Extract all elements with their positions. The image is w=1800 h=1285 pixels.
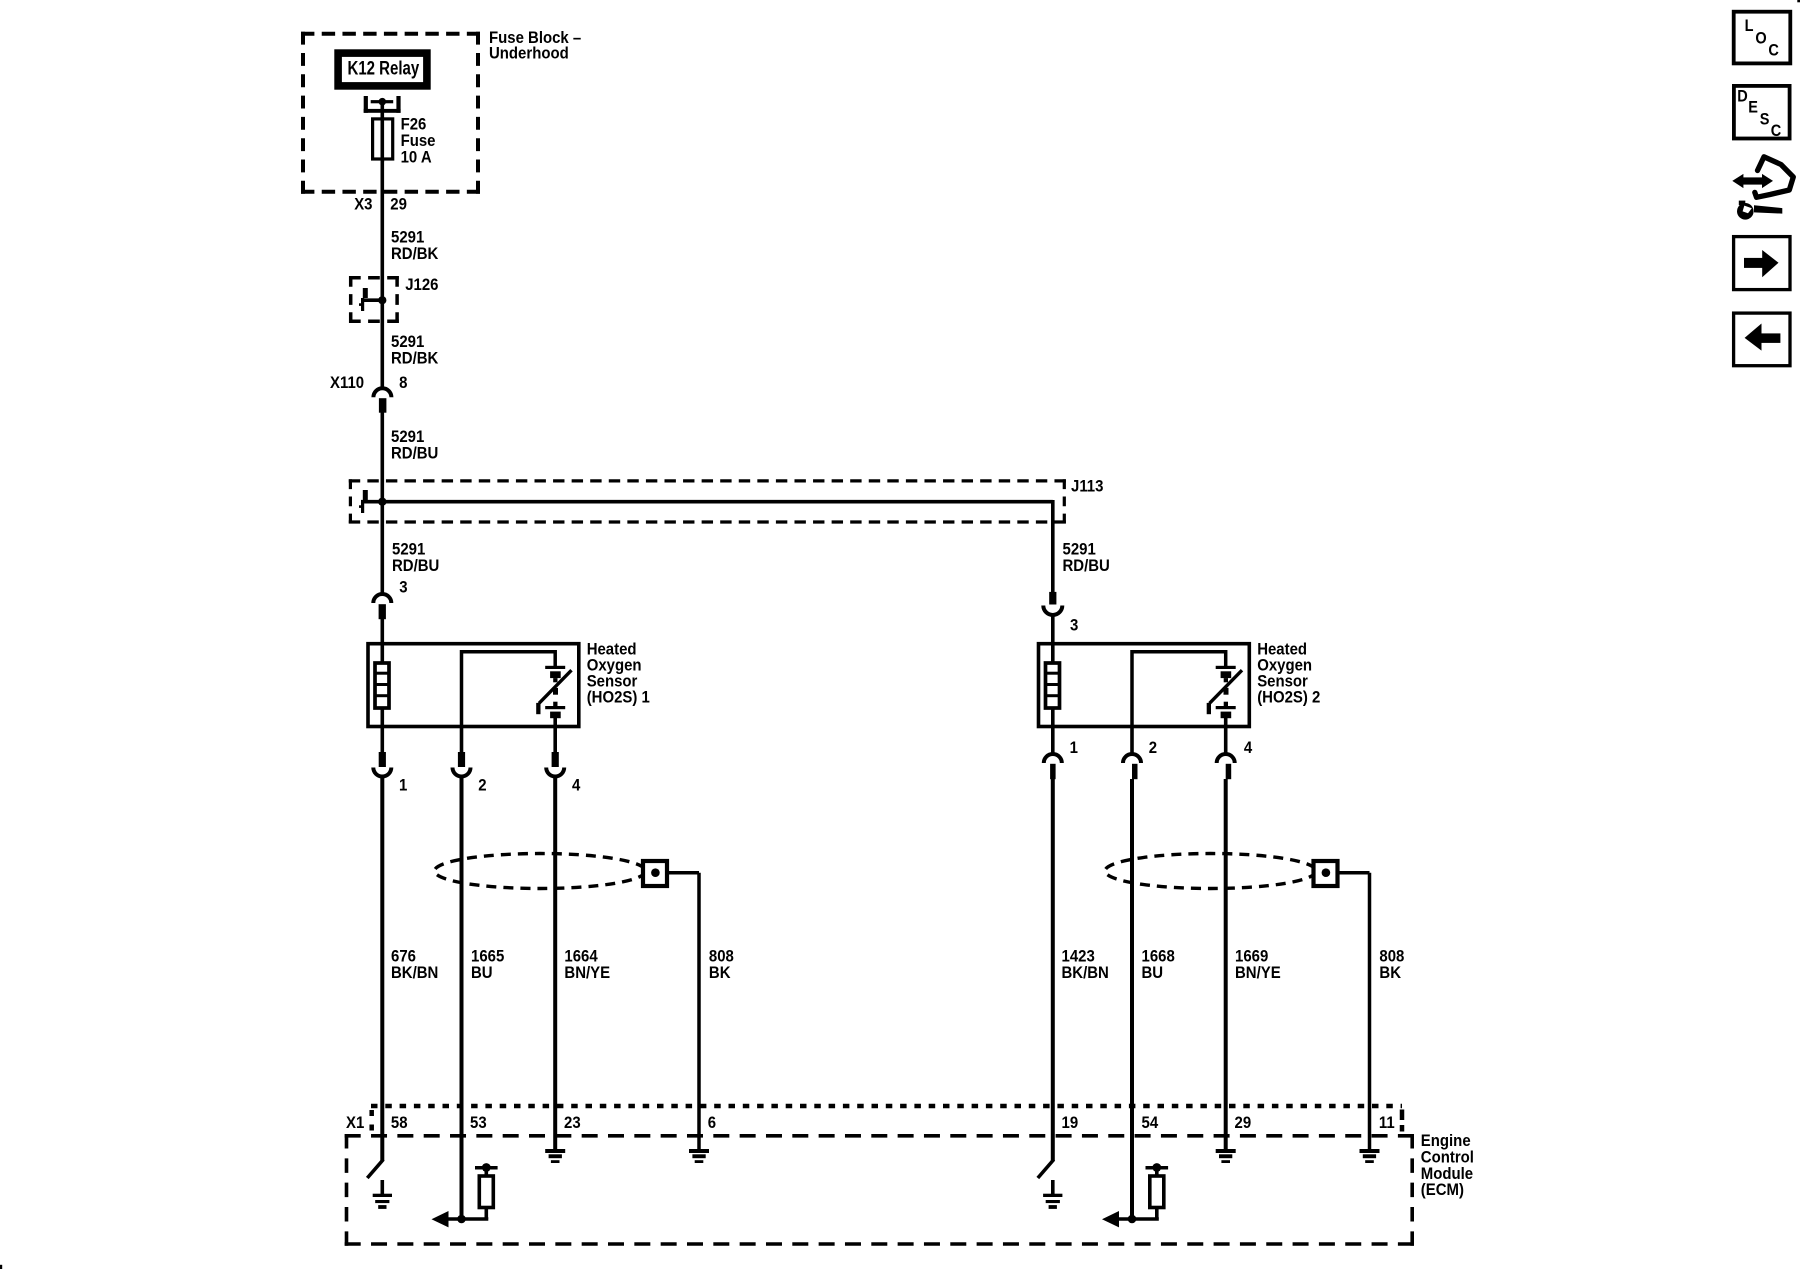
pin connector 2 left <box>453 752 487 795</box>
wire fuse to splice J126, 5291 RD/BK <box>380 161 384 303</box>
fuse F26 10A <box>373 116 436 167</box>
svg-text:53: 53 <box>470 1114 487 1132</box>
ground ECM pin 29 <box>1216 1149 1236 1163</box>
svg-text:Engine: Engine <box>1421 1132 1471 1150</box>
connector X3 pin 29 labels <box>354 196 407 214</box>
HO2S 1 box <box>368 644 579 727</box>
svg-text:1668: 1668 <box>1142 947 1175 965</box>
wire J113 branch horizontal <box>382 500 1053 504</box>
sensor cell loop wire HO2S 2 <box>1132 652 1226 727</box>
wire 1668 BU pin2 to ECM 54 <box>1130 779 1134 1219</box>
sense resistor ECM pin 53 <box>475 1163 498 1219</box>
wire J113 to left connector 3, 5291 RD/BU <box>380 500 384 593</box>
wire HO2S2 to pin 4 connector <box>1224 727 1228 753</box>
sensor cell symbol HO2S 2 <box>1207 666 1242 727</box>
wire connector3 to HO2S1 <box>380 619 384 646</box>
wire label 1664 BN/YE <box>564 947 610 982</box>
wire label 676 BK/BN <box>391 947 438 982</box>
wire label 1665 BU <box>471 947 504 982</box>
svg-text:(HO2S) 1: (HO2S) 1 <box>587 689 650 707</box>
wire X110 to J113, 5291 RD/BU <box>380 413 384 504</box>
wire HO2S1 to pin 1 connector <box>380 727 384 754</box>
svg-text:5291: 5291 <box>1063 541 1096 559</box>
svg-text:BK/BN: BK/BN <box>1062 964 1109 982</box>
wire 808 BK shield drain left <box>667 873 699 1151</box>
svg-text:BN/YE: BN/YE <box>564 964 610 982</box>
svg-text:3: 3 <box>1070 617 1078 635</box>
svg-text:54: 54 <box>1142 1114 1159 1132</box>
svg-text:BU: BU <box>1142 964 1164 982</box>
svg-text:C: C <box>1771 122 1781 140</box>
pin connector 2 right <box>1123 739 1157 779</box>
svg-text:K12 Relay: K12 Relay <box>348 58 420 79</box>
svg-text:BK: BK <box>1379 964 1401 982</box>
svg-text:J126: J126 <box>405 276 438 294</box>
svg-text:19: 19 <box>1062 1114 1079 1132</box>
ground ECM pin 6 <box>689 1149 709 1163</box>
svg-text:1664: 1664 <box>564 947 597 965</box>
svg-text:BU: BU <box>471 964 493 982</box>
svg-text:RD/BK: RD/BK <box>391 245 439 263</box>
signal arrow ECM pin 53 <box>432 1211 489 1227</box>
pin connector 4 right <box>1217 739 1253 779</box>
svg-text:X110: X110 <box>330 374 364 392</box>
svg-text:808: 808 <box>1379 947 1404 965</box>
svg-text:Underhood: Underhood <box>489 45 569 63</box>
svg-text:3: 3 <box>399 579 407 597</box>
svg-text:23: 23 <box>564 1114 581 1132</box>
junction node ECM pin 54 <box>1128 1215 1137 1224</box>
wire J113 branch down right, 5291 RD/BU <box>1051 500 1055 592</box>
svg-text:58: 58 <box>391 1114 408 1132</box>
svg-text:10 A: 10 A <box>401 149 432 167</box>
svg-text:29: 29 <box>1235 1114 1252 1132</box>
wire label 1423 BK/BN <box>1062 947 1109 982</box>
svg-text:676: 676 <box>391 947 416 965</box>
ground ECM pin 11 <box>1360 1149 1380 1163</box>
label Heated Oxygen Sensor (HO2S) 2 <box>1257 641 1320 707</box>
pin connector 1 left <box>373 752 407 795</box>
svg-text:X3: X3 <box>354 196 372 214</box>
wire J126 to X110, 5291 RD/BK <box>380 300 384 388</box>
wire label 1668 BU <box>1142 947 1175 982</box>
label Fuse Block - Underhood <box>489 29 581 62</box>
shield terminal box right <box>1314 861 1338 886</box>
connector X110 pin 8 <box>330 374 408 412</box>
ground chassis ECM pin 19 <box>1043 1180 1062 1209</box>
wire HO2S2 to pin 1 connector <box>1051 727 1055 753</box>
label Heated Oxygen Sensor (HO2S) 1 <box>587 641 650 707</box>
wire label 808 BK right <box>1379 947 1404 982</box>
svg-text:X1: X1 <box>346 1114 364 1132</box>
svg-text:6: 6 <box>708 1114 716 1132</box>
switch inside ECM pin 19 <box>1038 1160 1054 1179</box>
svg-text:5291: 5291 <box>392 541 425 559</box>
ground ECM pin 23 <box>545 1149 565 1163</box>
switch inside ECM pin 58 <box>367 1160 383 1179</box>
svg-text:RD/BU: RD/BU <box>1063 557 1110 575</box>
svg-text:4: 4 <box>1244 739 1252 757</box>
wire 808 BK shield drain right <box>1338 873 1370 1151</box>
svg-text:(ECM): (ECM) <box>1421 1181 1464 1199</box>
svg-text:1423: 1423 <box>1062 947 1095 965</box>
sensor cell symbol HO2S 1 <box>536 666 571 727</box>
icon LOC button <box>1734 12 1791 64</box>
svg-text:11: 11 <box>1379 1114 1395 1132</box>
svg-text:5291: 5291 <box>391 229 424 247</box>
svg-text:(HO2S) 2: (HO2S) 2 <box>1257 689 1320 707</box>
wire HO2S1 to pin 2 connector <box>460 727 464 754</box>
wire label 5291 RD/BK <box>391 229 439 264</box>
splice J113 clamp symbol <box>359 490 381 513</box>
wire 1423 BK/BN pin1 to ECM 19 <box>1051 779 1055 1161</box>
wire HO2S2 to pin 2 connector <box>1130 727 1134 753</box>
fuse block underhood dashed box <box>301 32 480 194</box>
svg-text:E: E <box>1748 99 1758 117</box>
heater element HO2S 1 <box>375 645 389 727</box>
shield terminal box left <box>643 861 667 886</box>
page mark bottom left <box>0 1265 2 1269</box>
label Engine Control Module (ECM) <box>1421 1132 1474 1199</box>
wire HO2S1 to pin 4 connector <box>553 727 557 754</box>
svg-text:S: S <box>1760 111 1770 129</box>
relay contact terminal bracket <box>364 96 401 113</box>
wire relay to fuse <box>380 102 384 119</box>
heater element HO2S 2 <box>1046 645 1060 727</box>
wire 676 BK/BN pin1 to ECM 58 <box>380 777 384 1160</box>
splice J126 <box>349 276 439 323</box>
svg-text:F26: F26 <box>401 116 427 134</box>
wire 1665 BU pin2 to ECM 53 <box>460 777 464 1219</box>
shield ellipse right <box>1105 854 1316 889</box>
svg-text:BK: BK <box>709 964 731 982</box>
page corner mark top right <box>1797 0 1800 2</box>
svg-text:5291: 5291 <box>391 428 424 446</box>
connector pin 3 right <box>1043 592 1078 635</box>
wire label 1669 BN/YE <box>1235 947 1281 982</box>
junction node ECM pin 53 <box>457 1215 466 1224</box>
relay K12 box <box>338 53 427 86</box>
wire label 808 BK left <box>709 947 734 982</box>
junction node J113 <box>378 498 386 506</box>
svg-text:1: 1 <box>399 777 407 795</box>
signal arrow ECM pin 54 <box>1102 1211 1159 1227</box>
HO2S 2 box <box>1039 644 1250 727</box>
svg-text:2: 2 <box>478 777 486 795</box>
wire 1669 BN/YE pin4 to ECM 29 ground <box>1224 779 1228 1151</box>
svg-text:1665: 1665 <box>471 947 504 965</box>
svg-text:4: 4 <box>572 777 580 795</box>
svg-text:RD/BU: RD/BU <box>392 557 439 575</box>
svg-text:J113: J113 <box>1071 478 1104 496</box>
icon diagnostic tools <box>1732 157 1793 220</box>
wire label 5291 RD/BU right <box>1063 541 1110 575</box>
pin connector 1 right <box>1044 739 1078 779</box>
svg-text:C: C <box>1768 42 1778 60</box>
svg-text:BN/YE: BN/YE <box>1235 964 1281 982</box>
ECM connector X1 dotted line <box>371 1106 1402 1132</box>
wire connector3 to HO2S2 <box>1051 617 1055 646</box>
svg-text:BK/BN: BK/BN <box>391 964 438 982</box>
shield ellipse left <box>435 854 646 889</box>
sensor cell loop wire HO2S 1 <box>462 652 556 727</box>
pin connector 4 left <box>546 752 580 795</box>
svg-text:808: 808 <box>709 947 734 965</box>
svg-text:1669: 1669 <box>1235 947 1268 965</box>
svg-text:5291: 5291 <box>391 333 424 351</box>
icon back arrow button <box>1734 313 1790 366</box>
wire label 5291 RD/BK <box>391 333 439 367</box>
wire 1664 BN/YE pin4 to ECM 23 ground <box>553 777 557 1151</box>
sense resistor ECM pin 54 <box>1146 1163 1169 1219</box>
ground chassis ECM pin 58 <box>373 1180 392 1209</box>
svg-text:RD/BU: RD/BU <box>391 444 438 462</box>
svg-text:2: 2 <box>1149 739 1157 757</box>
svg-text:29: 29 <box>390 196 407 214</box>
connector pin 3 left <box>373 579 407 620</box>
wire label 5291 RD/BU left <box>392 541 439 575</box>
ECM dashed box <box>345 1134 1414 1246</box>
svg-text:O: O <box>1755 30 1766 48</box>
svg-text:L: L <box>1745 17 1754 35</box>
svg-text:RD/BK: RD/BK <box>391 350 439 368</box>
icon DESC button <box>1734 86 1790 140</box>
svg-text:Fuse: Fuse <box>401 132 436 150</box>
wire label 5291 RD/BU <box>391 428 438 462</box>
svg-text:1: 1 <box>1070 739 1078 757</box>
icon next arrow button <box>1734 237 1790 290</box>
splice J113 dashed box <box>349 478 1104 524</box>
svg-text:8: 8 <box>399 374 407 392</box>
svg-text:D: D <box>1737 88 1747 106</box>
